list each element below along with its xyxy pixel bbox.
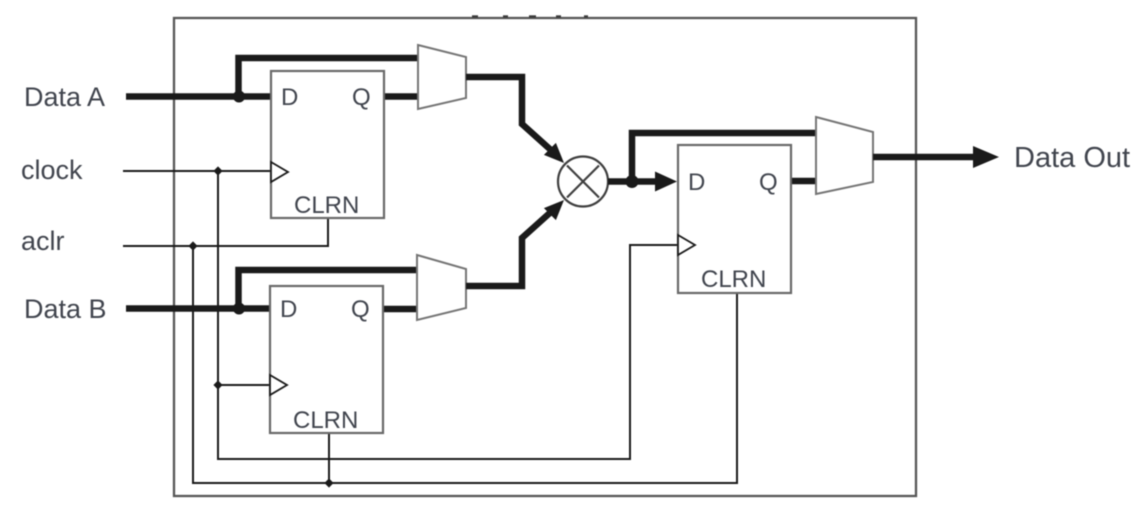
junction clock-FF2 branch xyxy=(213,380,222,389)
svg-text:CLRN: CLRN xyxy=(293,407,358,434)
svg-text:clock: clock xyxy=(21,155,83,185)
arrowhead into multiplier top input xyxy=(544,143,564,163)
arrowhead into FF3 D xyxy=(655,172,677,192)
svg-text:Q: Q xyxy=(759,169,778,196)
wire Data A (thick) into FF1 D xyxy=(126,93,271,100)
junction aclr branch xyxy=(188,241,197,250)
svg-text:Q: Q xyxy=(352,84,371,111)
junction multiplier output node xyxy=(626,175,639,188)
outer block boundary xyxy=(174,18,916,496)
mux M3 (output bypass mux) xyxy=(816,117,873,194)
faint tick artifacts above top edge xyxy=(472,15,588,17)
arrowhead Data Out xyxy=(973,146,999,168)
junction Data B node xyxy=(233,303,245,315)
svg-text:D: D xyxy=(280,296,297,323)
mux M1 (Data A bypass mux) xyxy=(418,45,466,109)
flip-flop FF2 (Data B register) xyxy=(270,286,383,434)
wire Data B (thick) into FF2 D xyxy=(126,305,270,312)
mux M2 (Data B bypass mux) xyxy=(417,255,466,320)
wire output bypass (thick) up and to mux M3 xyxy=(632,133,816,182)
wire Data A bypass (thick) up and to mux M1 xyxy=(239,58,419,97)
wire mux M1 output to multiplier (thick, corner + diagonal) xyxy=(466,77,552,151)
flip-flop FF3 (output register) xyxy=(678,145,791,293)
flip-flop FF1 (Data A register) xyxy=(271,71,384,219)
svg-text:Data Out: Data Out xyxy=(1014,142,1130,174)
multiplier node xyxy=(558,157,608,207)
svg-text:D: D xyxy=(688,169,705,196)
svg-text:aclr: aclr xyxy=(21,226,65,256)
arrowhead into multiplier bottom input xyxy=(544,200,564,220)
wire FF1 Q to mux M1 xyxy=(384,93,418,100)
svg-text:Data A: Data A xyxy=(24,82,105,112)
wire Data Out (thick with arrow) xyxy=(873,154,976,161)
wire multiplier output to FF3 D (thick with arrow) xyxy=(608,178,658,185)
svg-text:CLRN: CLRN xyxy=(701,266,766,293)
junction aclr-FF2 CLRN xyxy=(324,478,333,487)
wire clock net (thin): label to FF1 clk, down, branch to FF2 clk, bottom run to FF3 clk xyxy=(123,171,678,459)
svg-text:Q: Q xyxy=(351,296,370,323)
wire FF2 Q to mux M2 xyxy=(383,306,417,313)
wire mux M2 output to multiplier (thick, corner + diagonal) xyxy=(466,211,552,286)
wire aclr net (thin): label to FF1 CLRN, down, bottom run to FF3 CLRN, branch FF2 CLRN xyxy=(123,218,737,483)
svg-text:Data B: Data B xyxy=(24,294,107,324)
wire FF3 Q to mux M3 xyxy=(791,178,816,185)
wire Data B bypass (thick) up and to mux M2 xyxy=(239,270,418,309)
svg-text:CLRN: CLRN xyxy=(294,192,359,219)
junction clock-FF1 branch xyxy=(213,166,222,175)
svg-text:D: D xyxy=(281,84,298,111)
junction Data A node xyxy=(233,91,245,103)
